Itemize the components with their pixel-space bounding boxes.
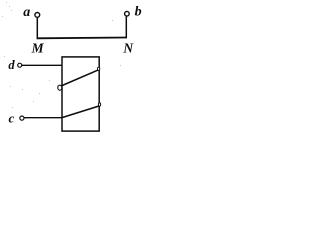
terminal b: [125, 11, 130, 16]
scan speckles: [2, 2, 121, 108]
contact circle right of blade 1: [97, 67, 99, 70]
terminal a: [35, 13, 40, 18]
switch blade 2: [62, 106, 99, 118]
svg-text:M: M: [31, 41, 45, 56]
terminal d: [18, 63, 22, 67]
switch blade 1: [61, 70, 98, 86]
terminal c: [20, 116, 24, 120]
wire c to box: [24, 117, 62, 119]
contact circle right of blade 2: [98, 103, 100, 107]
wire d to box: [22, 64, 62, 66]
wire a down to bar: [36, 18, 38, 39]
svg-text:d: d: [8, 58, 15, 72]
svg-text:a: a: [23, 5, 30, 20]
svg-text:b: b: [135, 5, 142, 20]
wire b down to bar: [125, 17, 127, 39]
bar M N: [37, 37, 127, 40]
svg-text:N: N: [122, 40, 134, 55]
contact pivot circle left of blade 1: [58, 85, 62, 90]
svg-text:c: c: [9, 110, 15, 125]
switch box outline: [62, 57, 99, 131]
